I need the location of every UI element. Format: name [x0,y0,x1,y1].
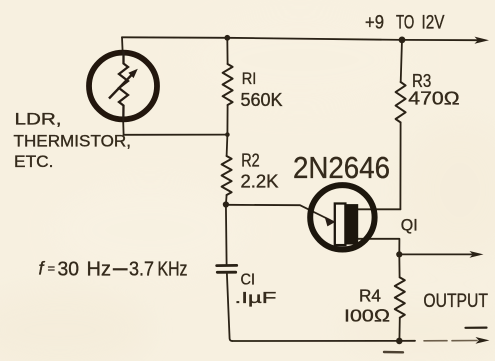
LDR internal resistor zigzag [119,51,128,121]
wire: Q1 base-2 lead [358,208,400,210]
svg-text:560K: 560K [241,90,283,110]
wire: bottom ground rail [232,340,415,342]
wire: bottom rail faded continuation [424,340,477,342]
svg-text:Hz: Hz [87,259,112,281]
arrow: output top line end [470,251,484,258]
wire: output node to R4 [398,254,400,277]
wire: output top line [399,253,472,255]
svg-text:THERMISTOR,: THERMISTOR, [14,131,132,150]
svg-text:3.7: 3.7 [129,259,154,281]
node: LDR / R1 / R2 junction [225,132,230,137]
Q1 base bar (light half) [335,204,346,246]
capacitor C1 bottom plate [217,271,235,274]
svg-text:RI: RI [242,70,257,88]
svg-text:+9: +9 [365,13,384,34]
resistor R2 [222,156,232,195]
node: R3 / top rail junction [399,37,406,44]
wire: Q1 base-1 lead [358,239,399,255]
svg-text:470Ω: 470Ω [408,89,459,109]
label: +9 TO 12V supply [365,13,445,34]
wire: output return dash mark [466,327,487,329]
svg-text:ETC.: ETC. [14,152,54,171]
label: frequency range f = 30 Hz - 3.7 KHz [39,259,188,281]
wire: R1 to R2 [227,105,228,156]
arrow: supply rail right end [475,37,490,44]
svg-text:=: = [48,261,56,276]
LDR arrowhead [128,69,137,78]
wire: R1 top stub [226,38,228,64]
wire: emitter node down to C1 [225,205,228,265]
arrow: bottom rail right end [476,337,490,344]
arrow: emitter arrowhead [325,217,336,227]
node: output junction [396,251,402,257]
wire: LDR bottom lead [122,121,124,135]
wire: stray dash under bottom rail [384,351,403,354]
resistor R4 [395,277,405,317]
wire: LDR to divider junction [124,134,228,136]
svg-text:R4: R4 [359,286,381,306]
wire: emitter lead of Q1 [226,205,330,220]
Q1 base bar (dark half) [346,204,359,244]
photoresistor LDR body circle [89,53,157,120]
wire: R4 to bottom rail [398,318,400,341]
svg-text:KHz: KHz [158,259,188,281]
resistor R1 [223,64,233,105]
svg-text:R2: R2 [241,151,260,171]
transistor Q1 body circle [310,185,374,249]
svg-text:I00Ω: I00Ω [344,306,390,326]
wire: R3 to base-2 corner [399,122,401,209]
svg-text:OUTPUT: OUTPUT [423,291,488,312]
svg-text:.IµF: .IµF [235,290,277,307]
svg-text:QI: QI [401,216,418,234]
node: R4 / bottom rail junction [396,338,403,345]
LDR variable arrow [109,75,132,99]
resistor R3 top stub [401,40,402,82]
svg-text:2N2646: 2N2646 [293,151,390,185]
svg-text:LDR,: LDR, [15,110,62,129]
capacitor C1 top plate [217,264,237,267]
wire: R2 bottom stub to emitter node [225,195,228,205]
wire: top supply rail [122,37,477,40]
svg-text:CI: CI [241,271,256,288]
svg-text:I2V: I2V [422,13,445,34]
wire: C1 to bottom rail [227,274,232,342]
svg-text:30: 30 [58,259,80,281]
svg-text:2.2K: 2.2K [241,171,279,191]
node: emitter / C1 junction [223,201,229,207]
svg-text:TO: TO [396,13,414,34]
wire: LDR top lead [121,37,124,51]
resistor R3 [396,82,406,122]
node: R1 / top rail junction [224,35,230,41]
